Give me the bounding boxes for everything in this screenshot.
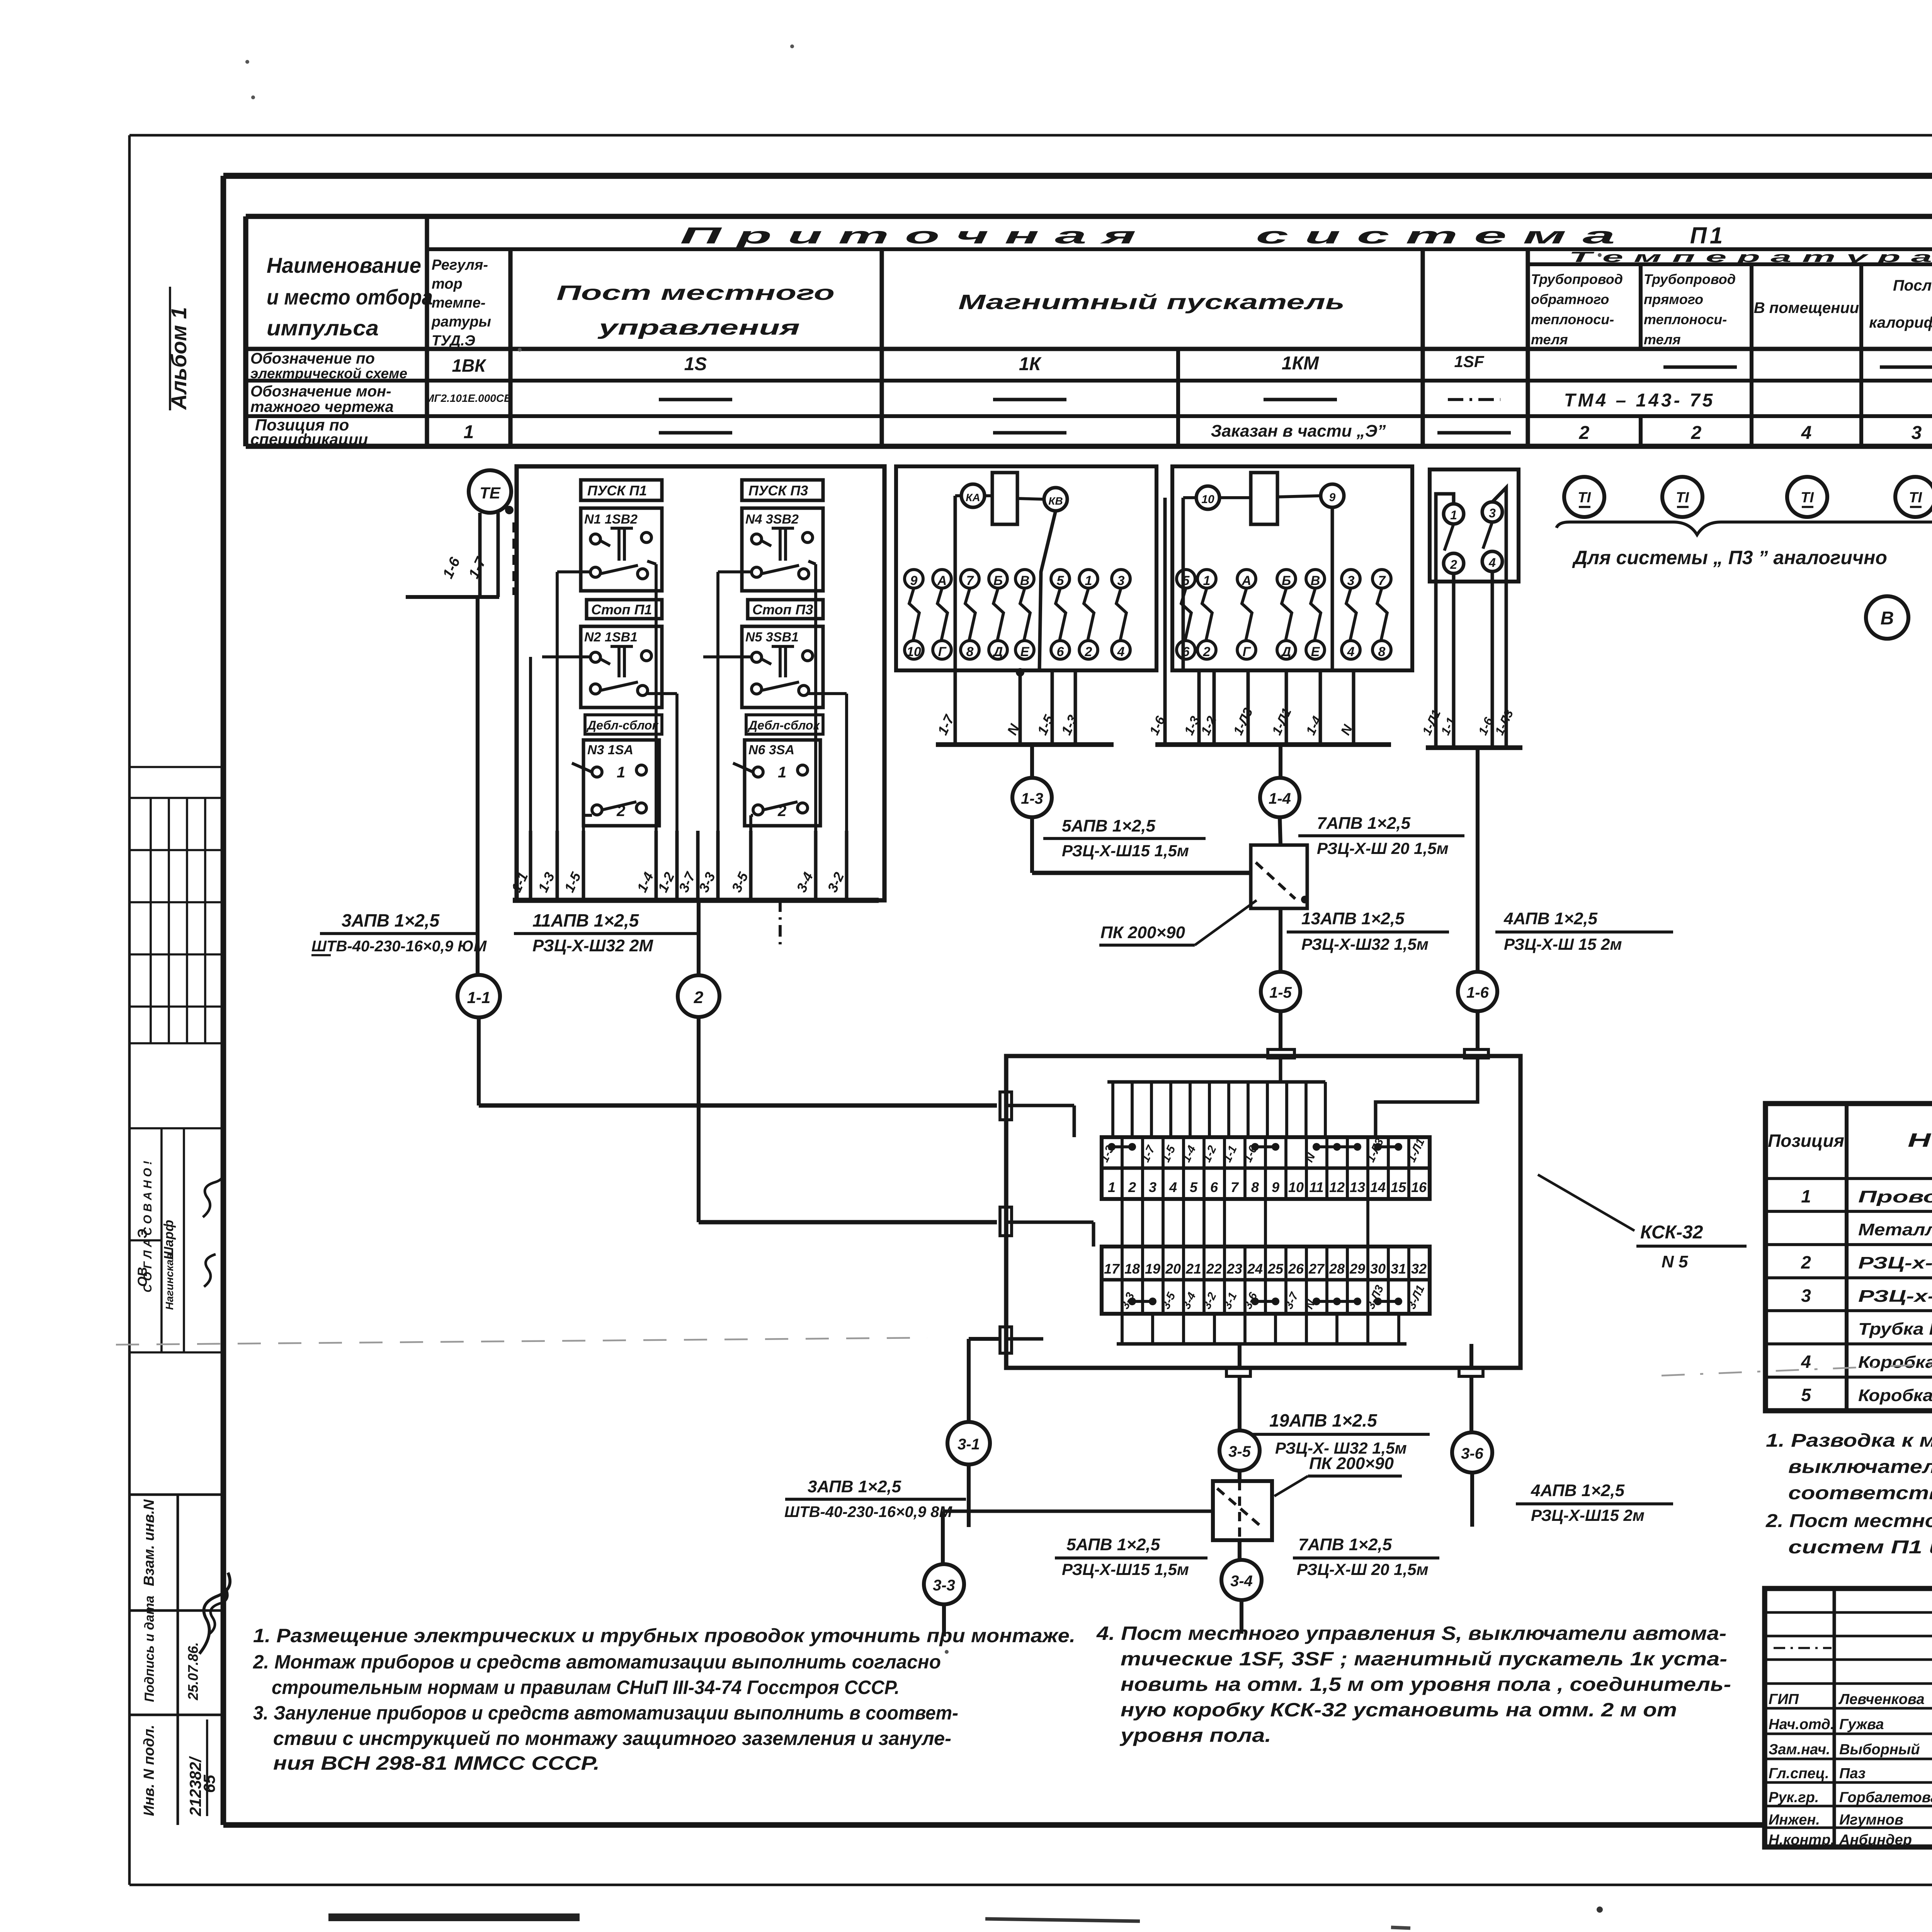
svg-text:18: 18 xyxy=(1124,1261,1140,1277)
svg-text:2. Монтаж приборов и средст: 2. Монтаж приборов и средств автоматизац… xyxy=(253,1651,941,1673)
svg-text:и место отбора: и место отбора xyxy=(267,285,433,309)
svg-text:6: 6 xyxy=(1182,645,1190,659)
svg-text:Д: Д xyxy=(1281,645,1291,659)
svg-text:N 5: N 5 xyxy=(1662,1252,1688,1271)
svg-text:5АПВ 1×2,5: 5АПВ 1×2,5 xyxy=(1062,816,1156,835)
svg-text:ОВ: ОВ xyxy=(135,1267,150,1287)
svg-text:П р и т о ч н а я: П р и т о ч н а я xyxy=(680,223,1136,248)
svg-text:22: 22 xyxy=(1206,1261,1222,1277)
svg-text:В помещении: В помещении xyxy=(1754,299,1859,316)
svg-text:Наименование: Наименование xyxy=(267,253,421,277)
svg-text:10: 10 xyxy=(1288,1179,1304,1195)
svg-text:1: 1 xyxy=(1801,1186,1811,1206)
svg-text:1-1: 1-1 xyxy=(467,988,491,1007)
svg-text:19АПВ 1×2.5: 19АПВ 1×2.5 xyxy=(1269,1410,1378,1430)
svg-text:Трубопровод: Трубопровод xyxy=(1531,271,1623,287)
svg-text:Н.контр.: Н.контр. xyxy=(1769,1832,1835,1848)
svg-text:теля: теля xyxy=(1644,332,1681,347)
svg-text:3: 3 xyxy=(1117,573,1125,588)
svg-text:3-5: 3-5 xyxy=(1228,1443,1251,1460)
svg-text:РЗЦ-Х-Ш 20 1,5м: РЗЦ-Х-Ш 20 1,5м xyxy=(1317,839,1449,857)
svg-text:Обозначение мон-: Обозначение мон- xyxy=(250,383,391,400)
svg-text:2: 2 xyxy=(694,988,704,1007)
svg-text:Левченкова: Левченкова xyxy=(1838,1691,1925,1708)
svg-text:7: 7 xyxy=(1378,573,1386,588)
svg-text:В: В xyxy=(1311,573,1320,588)
svg-text:5: 5 xyxy=(1057,573,1065,588)
svg-text:31: 31 xyxy=(1391,1261,1406,1277)
svg-text:прямого: прямого xyxy=(1644,291,1703,307)
svg-text:14: 14 xyxy=(1370,1179,1386,1195)
svg-text:4АПВ 1×2,5: 4АПВ 1×2,5 xyxy=(1503,909,1598,928)
svg-text:Заказан в части „Э”: Заказан в части „Э” xyxy=(1211,422,1386,440)
svg-text:РЗЦ-Х-Ш15 2м: РЗЦ-Х-Ш15 2м xyxy=(1531,1506,1645,1524)
svg-text:В: В xyxy=(1881,608,1894,629)
svg-text:7АПВ 1×2,5: 7АПВ 1×2,5 xyxy=(1317,814,1411,833)
svg-text:РЗЦ-Х-Ш15 1,5м: РЗЦ-Х-Ш15 1,5м xyxy=(1062,842,1189,860)
svg-text:РЗЦ-Х-Ш 15 2м: РЗЦ-Х-Ш 15 2м xyxy=(1504,935,1622,953)
svg-text:КВ: КВ xyxy=(1048,495,1063,507)
svg-text:ГИП: ГИП xyxy=(1769,1691,1799,1708)
svg-text:Инжен.: Инжен. xyxy=(1769,1812,1820,1828)
svg-text:Обозначение по: Обозначение по xyxy=(250,350,375,367)
svg-text:15: 15 xyxy=(1391,1179,1406,1195)
svg-text:П1: П1 xyxy=(1690,223,1726,248)
svg-text:Гл.спец.: Гл.спец. xyxy=(1769,1765,1829,1782)
svg-text:новить на отм. 1,5 м от у: новить на отм. 1,5 м от уровня пола , со… xyxy=(1121,1673,1731,1695)
svg-text:7: 7 xyxy=(966,573,975,588)
svg-text:ствии с инструкцией по мон: ствии с инструкцией по монтажу защитного… xyxy=(273,1728,951,1749)
svg-text:28: 28 xyxy=(1329,1261,1345,1277)
svg-text:Нач.отд.: Нач.отд. xyxy=(1769,1716,1834,1733)
svg-text:1-4: 1-4 xyxy=(1269,790,1291,807)
svg-text:Провод АПВ1×2,5 ГОСТ 6: Провод АПВ1×2,5 ГОСТ 6323-79 xyxy=(1858,1187,1932,1206)
svg-text:ратуры: ратуры xyxy=(431,314,491,330)
svg-text:соответственно: 1к , 1км, 1: соответственно: 1к , 1км, 1SF, 1ВК . xyxy=(1788,1483,1932,1503)
svg-text:N5 3SB1: N5 3SB1 xyxy=(745,630,799,645)
svg-text:2: 2 xyxy=(1203,645,1211,659)
svg-text:РЗЦ-Х-Ш15 1,5м: РЗЦ-Х-Ш15 1,5м xyxy=(1062,1560,1189,1578)
svg-text:управления: управления xyxy=(597,316,800,339)
svg-text:4: 4 xyxy=(1801,423,1812,443)
svg-text:1ВК: 1ВК xyxy=(452,355,486,376)
svg-text:4АПВ 1×2,5: 4АПВ 1×2,5 xyxy=(1531,1481,1625,1500)
svg-text:выключателю 3SF, регулятору: выключателю 3SF, регулятору температуры … xyxy=(1788,1457,1932,1477)
svg-text:Рук.гр.: Рук.гр. xyxy=(1769,1789,1819,1806)
svg-text:Игумнов: Игумнов xyxy=(1839,1812,1903,1828)
svg-text:ШТВ-40-230-16×0,9 ЮМ: ШТВ-40-230-16×0,9 ЮМ xyxy=(311,938,487,955)
svg-text:3: 3 xyxy=(1347,573,1355,588)
svg-text:3: 3 xyxy=(1801,1286,1811,1306)
svg-text:ТЕ: ТЕ xyxy=(480,484,501,502)
svg-text:Взам. инв.N: Взам. инв.N xyxy=(141,1499,157,1586)
svg-text:Гужва: Гужва xyxy=(1839,1716,1884,1733)
svg-text:Дебл-сблок: Дебл-сблок xyxy=(747,718,820,732)
svg-text:2: 2 xyxy=(1801,1252,1811,1272)
svg-text:32: 32 xyxy=(1411,1261,1427,1277)
svg-text:МГ2.101Е.000СБ: МГ2.101Е.000СБ xyxy=(425,392,512,404)
svg-text:26: 26 xyxy=(1288,1261,1304,1277)
svg-text:5АПВ 1×2,5: 5АПВ 1×2,5 xyxy=(1066,1535,1160,1554)
svg-text:ТI: ТI xyxy=(1909,490,1922,506)
svg-text:1. Размещение электрических: 1. Размещение электрических и трубных пр… xyxy=(253,1625,1075,1646)
svg-text:27: 27 xyxy=(1308,1261,1325,1277)
svg-text:4: 4 xyxy=(1801,1352,1811,1372)
svg-text:Б: Б xyxy=(993,573,1003,588)
svg-text:2: 2 xyxy=(1085,645,1092,659)
svg-text:Г: Г xyxy=(938,645,947,659)
svg-text:1SF: 1SF xyxy=(1454,352,1484,371)
svg-text:2: 2 xyxy=(1579,423,1590,443)
svg-text:25: 25 xyxy=(1267,1261,1284,1277)
svg-text:N4 3SB2: N4 3SB2 xyxy=(745,512,799,527)
svg-text:ТМ4 – 143- 75: ТМ4 – 143- 75 xyxy=(1564,390,1715,411)
svg-text:ПК 200×90: ПК 200×90 xyxy=(1100,923,1185,942)
svg-text:24: 24 xyxy=(1247,1261,1263,1277)
svg-text:ную коробку КСК-32 установи: ную коробку КСК-32 установить на отм. 2 … xyxy=(1121,1699,1677,1721)
svg-text:7АПВ 1×2,5: 7АПВ 1×2,5 xyxy=(1298,1535,1392,1554)
svg-text:ТI: ТI xyxy=(1578,490,1591,506)
svg-text:9: 9 xyxy=(1272,1179,1279,1195)
svg-text:Т е м п е р а т у р а: Т е м п е р а т у р а xyxy=(1569,249,1932,265)
svg-text:1-6: 1-6 xyxy=(1466,984,1489,1001)
svg-text:13АПВ 1×2,5: 13АПВ 1×2,5 xyxy=(1301,909,1405,928)
svg-text:1К: 1К xyxy=(1019,354,1042,374)
svg-text:РЗЦ-Х-Ш32 2М: РЗЦ-Х-Ш32 2М xyxy=(532,936,653,955)
svg-text:Д: Д xyxy=(992,645,1003,659)
svg-text:3-6: 3-6 xyxy=(1461,1445,1484,1462)
svg-text:Трубка ШТВ-40-230-16×0,9 ГОСТ: Трубка ШТВ-40-230-16×0,9 ГОСТ 19034-73 xyxy=(1858,1320,1932,1338)
svg-text:1: 1 xyxy=(1085,573,1092,588)
svg-text:3: 3 xyxy=(1489,506,1496,520)
svg-text:4: 4 xyxy=(1169,1179,1177,1195)
svg-text:11: 11 xyxy=(1309,1179,1323,1195)
svg-text:систем П1 и П3.: систем П1 и П3. xyxy=(1788,1537,1932,1558)
svg-text:N1 1SB2: N1 1SB2 xyxy=(584,512,638,527)
svg-text:Коробка соединительная КСК-32: Коробка соединительная КСК-32 ТУ361753-7… xyxy=(1858,1353,1932,1372)
svg-text:КА: КА xyxy=(966,492,980,503)
svg-text:4: 4 xyxy=(1488,556,1496,570)
svg-text:N6 3SA: N6 3SA xyxy=(748,743,794,757)
svg-text:Г: Г xyxy=(1243,645,1252,659)
svg-text:ния ВСН 298-81 ММСС СССР.: ния ВСН 298-81 ММСС СССР. xyxy=(273,1752,600,1774)
svg-text:65: 65 xyxy=(200,1775,218,1793)
svg-text:Б: Б xyxy=(1282,573,1291,588)
svg-text:А: А xyxy=(937,573,947,588)
svg-text:5: 5 xyxy=(1182,573,1190,588)
svg-text:Позиция: Позиция xyxy=(1768,1131,1844,1151)
svg-text:Э: Э xyxy=(135,1229,150,1238)
svg-text:8: 8 xyxy=(1378,645,1386,659)
svg-text:7: 7 xyxy=(1231,1179,1239,1195)
svg-text:теля: теля xyxy=(1531,332,1568,347)
svg-text:Дебл-сблок: Дебл-сблок xyxy=(586,718,659,732)
svg-text:теплоноси-: теплоноси- xyxy=(1531,311,1614,327)
svg-text:10: 10 xyxy=(906,645,921,659)
svg-text:8: 8 xyxy=(966,645,974,659)
svg-text:Анбиндер: Анбиндер xyxy=(1839,1832,1912,1848)
svg-text:2: 2 xyxy=(1691,423,1702,443)
svg-text:Магнитный пускатель: Магнитный пускатель xyxy=(958,291,1345,314)
svg-text:1: 1 xyxy=(1203,573,1211,588)
svg-text:4. Пост местного управления: 4. Пост местного управления S, выключате… xyxy=(1096,1622,1726,1644)
svg-text:4: 4 xyxy=(1117,645,1125,659)
svg-text:Зам.нач.: Зам.нач. xyxy=(1769,1742,1830,1758)
svg-text:тор: тор xyxy=(432,276,463,292)
svg-text:2: 2 xyxy=(1128,1179,1136,1195)
svg-text:калорифера: калорифера xyxy=(1869,314,1932,331)
svg-text:N3 1SA: N3 1SA xyxy=(587,743,633,757)
svg-text:РЗЦ-Х-Ш32 1,5м: РЗЦ-Х-Ш32 1,5м xyxy=(1301,935,1429,953)
svg-text:А: А xyxy=(1242,573,1252,588)
svg-text:ПУСК П1: ПУСК П1 xyxy=(587,483,647,498)
svg-text:ПУСК П3: ПУСК П3 xyxy=(748,483,808,498)
svg-text:КСК-32: КСК-32 xyxy=(1640,1222,1703,1243)
svg-text:Н а и м е н о в а н и е: Н а и м е н о в а н и е xyxy=(1908,1129,1932,1151)
svg-text:Паз: Паз xyxy=(1839,1765,1866,1782)
svg-text:5: 5 xyxy=(1190,1179,1198,1195)
svg-text:строительным нормам и прави: строительным нормам и правилам СНиП III-… xyxy=(272,1677,900,1698)
svg-text:1: 1 xyxy=(1450,508,1457,522)
svg-text:Выборный: Выборный xyxy=(1839,1742,1920,1758)
svg-text:3. Зануление приборов и сре: 3. Зануление приборов и средств автомати… xyxy=(253,1702,958,1724)
svg-text:1: 1 xyxy=(617,764,625,781)
svg-text:5: 5 xyxy=(1801,1385,1811,1405)
svg-text:ТI: ТI xyxy=(1676,490,1689,506)
svg-text:19: 19 xyxy=(1145,1261,1160,1277)
svg-text:20: 20 xyxy=(1165,1261,1181,1277)
svg-text:13: 13 xyxy=(1350,1179,1365,1195)
svg-text:Подпись и дата: Подпись и дата xyxy=(142,1595,157,1702)
svg-text:1. Разводка к магнитным пу: 1. Разводка к магнитным пускателям 3к , … xyxy=(1766,1430,1932,1451)
svg-text:6: 6 xyxy=(1210,1179,1218,1195)
svg-text:обратного: обратного xyxy=(1531,291,1609,307)
svg-text:темпе-: темпе- xyxy=(432,295,486,311)
svg-text:Пост местного: Пост местного xyxy=(556,281,835,304)
svg-text:Трубопровод: Трубопровод xyxy=(1644,271,1736,287)
svg-text:30: 30 xyxy=(1370,1261,1386,1277)
svg-text:9: 9 xyxy=(910,573,918,588)
svg-text:Нагинская: Нагинская xyxy=(163,1253,175,1310)
svg-text:3: 3 xyxy=(1912,423,1922,443)
svg-text:1-5: 1-5 xyxy=(1269,984,1292,1001)
svg-text:8: 8 xyxy=(1251,1179,1259,1195)
svg-text:спецификации: спецификации xyxy=(250,430,368,448)
svg-text:23: 23 xyxy=(1226,1261,1242,1277)
svg-text:2: 2 xyxy=(1450,558,1457,571)
svg-text:ТI: ТI xyxy=(1801,490,1814,506)
svg-text:3-4: 3-4 xyxy=(1230,1573,1253,1590)
svg-text:3-3: 3-3 xyxy=(933,1577,955,1594)
svg-text:ТУД.Э: ТУД.Э xyxy=(432,333,475,349)
svg-text:Стоп П3: Стоп П3 xyxy=(752,602,813,617)
svg-text:импульса: импульса xyxy=(267,316,379,340)
svg-text:1: 1 xyxy=(778,764,786,781)
svg-text:16: 16 xyxy=(1411,1179,1427,1195)
svg-text:1КМ: 1КМ xyxy=(1282,353,1319,374)
svg-text:РЗЦ-х-Ш32: РЗЦ-х-Ш32 xyxy=(1858,1287,1932,1306)
svg-text:29: 29 xyxy=(1349,1261,1365,1277)
svg-text:электрической схеме: электрической схеме xyxy=(250,366,407,381)
svg-text:тические 1SF, 3SF ; магн: тические 1SF, 3SF ; магнитный пускатель … xyxy=(1121,1648,1727,1670)
svg-text:1S: 1S xyxy=(684,354,707,374)
svg-text:1-3: 1-3 xyxy=(1021,790,1043,807)
svg-text:11АПВ 1×2,5: 11АПВ 1×2,5 xyxy=(532,910,639,930)
svg-text:12: 12 xyxy=(1329,1179,1345,1195)
svg-text:РЗЦ-Х-Ш 20 1,5м: РЗЦ-Х-Ш 20 1,5м xyxy=(1297,1560,1429,1578)
svg-text:6: 6 xyxy=(1057,645,1065,659)
svg-text:3: 3 xyxy=(1149,1179,1156,1195)
svg-text:21: 21 xyxy=(1185,1261,1201,1277)
svg-text:Горбалетова: Горбалетова xyxy=(1839,1789,1932,1806)
svg-text:4: 4 xyxy=(1347,645,1355,659)
svg-text:9: 9 xyxy=(1329,491,1336,504)
svg-text:3АПВ 1×2,5: 3АПВ 1×2,5 xyxy=(342,910,440,930)
svg-text:Металлорукав ТУ22.3988-77; РЗ: Металлорукав ТУ22.3988-77; РЗЦ-Х-Ш-15 xyxy=(1858,1220,1932,1239)
svg-text:1: 1 xyxy=(464,422,474,442)
svg-text:17: 17 xyxy=(1104,1261,1120,1277)
svg-text:3АПВ 1×2,5: 3АПВ 1×2,5 xyxy=(808,1477,901,1496)
svg-text:тажного чертежа: тажного чертежа xyxy=(250,398,394,415)
svg-text:N2 1SB1: N2 1SB1 xyxy=(584,630,638,645)
svg-text:с и с т е м а: с и с т е м а xyxy=(1256,223,1615,248)
svg-text:РЗЦ-х- Ш20: РЗЦ-х- Ш20 xyxy=(1858,1253,1932,1272)
svg-text:В: В xyxy=(1020,573,1030,588)
svg-text:3-1: 3-1 xyxy=(957,1436,980,1453)
svg-text:Коробка протяжная ПК 200×90 ТУ: Коробка протяжная ПК 200×90 ТУ36.1070-75 xyxy=(1858,1386,1932,1405)
svg-text:Для системы „ П3 ” аналогично: Для системы „ П3 ” аналогично xyxy=(1572,547,1887,568)
svg-text:2. Пост местного управления: 2. Пост местного управления S является о… xyxy=(1765,1511,1932,1531)
svg-text:10: 10 xyxy=(1201,493,1214,506)
svg-text:ПК 200×90: ПК 200×90 xyxy=(1309,1454,1394,1473)
svg-text:Е: Е xyxy=(1020,645,1030,659)
svg-text:Стоп П1: Стоп П1 xyxy=(591,602,652,617)
svg-text:Е: Е xyxy=(1311,645,1320,659)
svg-text:Регуля-: Регуля- xyxy=(432,257,488,273)
svg-text:25.07.86.: 25.07.86. xyxy=(185,1642,201,1701)
svg-text:ШТВ-40-230-16×0,9 8М: ШТВ-40-230-16×0,9 8М xyxy=(784,1503,952,1520)
svg-text:уровня пола.: уровня пола. xyxy=(1119,1725,1271,1746)
svg-text:После: После xyxy=(1893,277,1932,294)
svg-text:1: 1 xyxy=(1108,1179,1116,1195)
svg-text:теплоноси-: теплоноси- xyxy=(1644,311,1727,327)
svg-text:Инв. N подл.: Инв. N подл. xyxy=(141,1725,157,1816)
